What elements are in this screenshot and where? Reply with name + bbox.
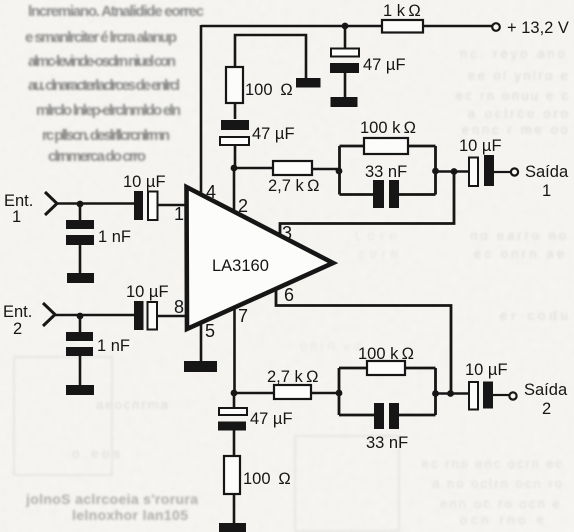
svg-text:au. clnaracterlaclrces de enlr: au. clnaracterlaclrces de enlrcl xyxy=(28,77,180,94)
wire input 2 shunt xyxy=(79,316,82,385)
input connector Ent. 1 xyxy=(4,192,57,226)
node pin2 xyxy=(231,165,238,172)
capacitor C 47 µF channel 2 xyxy=(218,408,293,431)
capacitor C 10 µF output 1 xyxy=(459,137,502,186)
svg-text:2: 2 xyxy=(542,400,551,418)
svg-text:2: 2 xyxy=(238,196,248,216)
wire top supply rail xyxy=(201,25,493,28)
svg-text:4: 4 xyxy=(206,182,216,202)
svg-text:lelnoxhor lan105: lelnoxhor lan105 xyxy=(72,507,188,523)
capacitor C 47 µF decoupling xyxy=(330,49,406,75)
svg-text:1: 1 xyxy=(12,208,21,226)
svg-text:no earro no: no earro no xyxy=(470,228,566,243)
wire output node channel 2 xyxy=(436,392,470,395)
svg-text:1: 1 xyxy=(542,182,551,200)
resistor R 100 Ω channel 2 xyxy=(224,456,291,494)
wire input 1 shunt xyxy=(79,204,82,273)
svg-text:2,7 k Ω: 2,7 k Ω xyxy=(267,368,318,386)
capacitor C 10 µF input 1 xyxy=(123,173,166,220)
svg-text:almc-levinde-osclrn niuel con: almc-levinde-osclrn niuel con xyxy=(28,53,176,70)
wire feedback bracket channel 1 xyxy=(340,146,436,195)
node feedback right channel 1 xyxy=(432,168,439,175)
resistor R 2,7 kΩ channel 2 xyxy=(234,368,339,399)
svg-text:33 nF: 33 nF xyxy=(365,163,407,181)
svg-text:47 µF: 47 µF xyxy=(252,125,295,143)
resistor R 1 kΩ xyxy=(382,2,423,33)
svg-text:1 k Ω: 1 k Ω xyxy=(383,2,421,20)
svg-text:ennc r me oo: ennc r me oo xyxy=(462,122,568,137)
svg-text:100 k Ω: 100 k Ω xyxy=(358,345,414,363)
node pin7 xyxy=(231,390,238,397)
capacitor C 1 nF input 2 xyxy=(66,332,130,356)
wire input 1 xyxy=(56,202,134,205)
svg-text:Saída: Saída xyxy=(525,163,569,181)
capacitor C 47 µF channel 1 xyxy=(220,120,295,145)
pin 2 label xyxy=(238,196,248,216)
resistor R 100 Ω channel 1 xyxy=(226,67,293,103)
wire R100 to ground channel 2 xyxy=(233,494,236,523)
wire bypass bracket to ground xyxy=(235,35,306,79)
svg-text:10 µF: 10 µF xyxy=(126,283,169,301)
resistor R 2,7 kΩ channel 1 xyxy=(234,161,339,195)
node input 1 xyxy=(77,201,84,208)
resistor R 100 kΩ channel 1 xyxy=(360,119,416,154)
svg-text:47 µF: 47 µF xyxy=(363,56,406,74)
wire supply to C decoupling xyxy=(344,26,347,48)
op-amp U1 LA3160 xyxy=(187,187,334,329)
svg-text:2: 2 xyxy=(13,320,22,338)
wire to output terminal 2 xyxy=(493,394,509,396)
node supply junction xyxy=(342,23,349,30)
wire pin 5 to ground xyxy=(200,323,203,361)
wire R100 to C47 channel 1 xyxy=(234,103,237,119)
svg-text:2,7 k Ω: 2,7 k Ω xyxy=(268,177,319,195)
svg-text:e smanlrciter é lrcra alanup: e smanlrciter é lrcra alanup xyxy=(25,29,177,46)
svg-text:nc. reyo ano: nc. reyo ano xyxy=(460,46,565,61)
wire C decoupling to ground xyxy=(344,73,347,97)
wire pin 3 feedback xyxy=(280,172,454,237)
wire C47 to pin2 node xyxy=(234,145,237,168)
svg-text:7: 7 xyxy=(238,306,248,326)
svg-text:6: 6 xyxy=(284,285,294,305)
svg-text:8: 8 xyxy=(174,297,184,317)
node feedback left channel 2 xyxy=(336,390,343,397)
svg-text:10 µF: 10 µF xyxy=(123,173,166,191)
svg-text:Ent.: Ent. xyxy=(3,303,32,321)
ground decoupling xyxy=(331,97,358,107)
ground channel 2 xyxy=(219,523,246,532)
wire feedback bracket channel 2 xyxy=(339,368,436,415)
pin 5 label xyxy=(205,321,215,341)
node output channel 1 xyxy=(451,168,458,175)
resistor R 100 kΩ channel 2 xyxy=(358,345,414,375)
wire C47 to R100 channel 2 xyxy=(233,431,236,457)
svg-text:mlrclo lnlep-elrclnmldo eln: mlrclo lnlep-elrclnmldo eln xyxy=(36,102,181,119)
terminal Saída 2 xyxy=(509,381,568,418)
terminal Saída 1 xyxy=(511,163,569,200)
svg-text:1 nF: 1 nF xyxy=(97,337,130,355)
svg-text:47 µF: 47 µF xyxy=(250,410,293,428)
node feedback left channel 1 xyxy=(336,168,343,175)
capacitor C 10 µF output 2 xyxy=(465,361,508,410)
svg-text:33 nF: 33 nF xyxy=(366,434,408,452)
pin 7 label xyxy=(238,306,248,326)
ground pin 5 xyxy=(184,361,217,372)
svg-text:3: 3 xyxy=(282,223,292,243)
capacitor C 33 nF channel 2 xyxy=(366,403,408,452)
input connector Ent. 2 xyxy=(3,303,55,338)
wire pin4 supply rail xyxy=(200,25,203,196)
ground input 1 xyxy=(67,273,94,283)
svg-text:LA3160: LA3160 xyxy=(212,257,269,275)
wire pin 6 xyxy=(276,289,451,394)
wire to output terminal 1 xyxy=(494,171,510,173)
ground bypass xyxy=(296,78,321,88)
wire pin 7 xyxy=(233,307,236,393)
pin 4 label xyxy=(206,182,216,202)
capacitor C 33 nF channel 1 xyxy=(365,163,407,208)
svg-text:+ 13,2 V: + 13,2 V xyxy=(507,19,569,37)
svg-text:a no oclrn ocn ro: a no oclrn ocn ro xyxy=(432,476,562,491)
wire input 2 xyxy=(54,314,134,317)
svg-text:ocn rno e: ocn rno e xyxy=(460,512,544,527)
capacitor C 10 µF input 2 xyxy=(126,283,169,330)
svg-text:Saída: Saída xyxy=(524,381,568,399)
capacitor C 1 nF input 1 xyxy=(66,220,131,246)
terminal +13,2 V xyxy=(492,19,569,37)
svg-text:5: 5 xyxy=(205,321,215,341)
svg-text:10 µF: 10 µF xyxy=(459,137,502,155)
pin 3 label xyxy=(282,223,292,243)
svg-text:rc pllscn. deslrllcrcnlrmn: rc pllscn. deslrllcrcnlrmn xyxy=(42,127,170,144)
ground input 2 xyxy=(66,385,94,395)
svg-text:100 k Ω: 100 k Ω xyxy=(360,119,416,137)
svg-text:aeocnrma: aeocnrma xyxy=(96,397,169,412)
wire C10 to pin 8 xyxy=(158,315,186,318)
node input 2 xyxy=(77,313,84,320)
svg-text:1 nF: 1 nF xyxy=(98,228,131,246)
svg-text:1: 1 xyxy=(174,204,184,224)
pin 6 label xyxy=(284,285,294,305)
svg-text:100 Ω: 100 Ω xyxy=(243,470,291,488)
svg-text:10 µF: 10 µF xyxy=(465,361,508,379)
svg-text:clrnmerca do crro: clrnmerca do crro xyxy=(48,148,146,165)
wire C10 to pin 1 xyxy=(158,204,186,207)
svg-text:enn oc ro ocn e: enn oc ro ocn e xyxy=(440,496,560,511)
svg-text:100 Ω: 100 Ω xyxy=(245,81,293,99)
node feedback right channel 2 xyxy=(432,390,439,397)
pin 1 label xyxy=(174,204,184,224)
wire pin7 node to C47 channel 2 xyxy=(233,393,236,408)
wire output node channel 1 xyxy=(436,170,470,173)
wire node to pin 2 xyxy=(233,168,236,213)
svg-text:jolnoS aclrcoeia s'rorura: jolnoS aclrcoeia s'rorura xyxy=(25,491,198,507)
pin 8 label xyxy=(174,297,184,317)
svg-text:lncremiano. Atnalidide eorrec: lncremiano. Atnalidide eorrec xyxy=(28,3,204,20)
node output channel 2 xyxy=(447,390,454,397)
